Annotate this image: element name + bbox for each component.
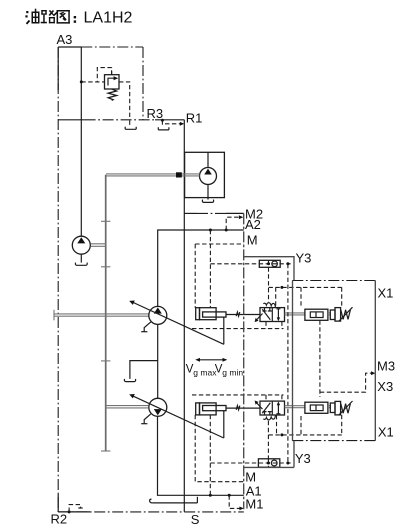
left boundary — [57, 47, 59, 512]
swash plate arm 2 — [132, 396, 224, 438]
pipe A3 — [80, 47, 82, 236]
dashed frame top of control group 2 — [192, 394, 284, 396]
R2 port symbol — [68, 510, 71, 513]
pump housing box — [185, 152, 225, 197]
fullwidth colon — [74, 16, 76, 23]
M dashed line — [195, 243, 244, 245]
svg-text:M: M — [247, 233, 258, 248]
svg-text:R3: R3 — [147, 106, 164, 121]
svg-text:M1: M1 — [245, 497, 263, 512]
spring 2 — [341, 404, 351, 414]
adjust arrow — [339, 401, 353, 415]
strainer hook — [150, 499, 153, 503]
line above circle — [207, 152, 209, 168]
R3 tank bracket — [158, 127, 169, 130]
line below to tank — [207, 185, 209, 200]
pilot to valve spring — [268, 267, 270, 302]
char 路 — [41, 10, 58, 23]
spring curl below valve — [263, 416, 275, 420]
svg-text:X1: X1 — [378, 425, 394, 440]
drain below — [80, 255, 82, 263]
svg-text:Y3: Y3 — [295, 451, 311, 466]
svg-text:LA1H2: LA1H2 — [84, 10, 133, 27]
Y3 box bottom — [244, 441, 294, 468]
proportional arrow — [256, 403, 262, 410]
right cell path — [277, 405, 279, 414]
drain tank bracket (dashed) — [129, 121, 131, 126]
feedback rod to swash arm — [223, 411, 225, 438]
top boundary — [58, 46, 81, 48]
R3/R1 horizontal line y=119.8 — [85, 119, 155, 121]
svg-text:A3: A3 — [57, 32, 73, 47]
pilot dashed from pipe — [81, 81, 104, 83]
A1 pipe down and over — [158, 417, 244, 496]
pump circle — [200, 168, 217, 185]
link to valve — [226, 314, 260, 316]
title 油路图：LA1H2 — [25, 9, 132, 27]
svg-text:X1: X1 — [378, 286, 394, 301]
flow triangle down — [154, 409, 162, 415]
svg-text:A2: A2 — [245, 217, 261, 232]
A1 pilot — [209, 415, 211, 495]
tank bracket — [202, 200, 213, 203]
junction dot A1/servo pilot — [209, 494, 212, 497]
dashed frame bottom of control group 1 — [192, 328, 284, 330]
rod to measuring piston — [285, 313, 306, 315]
right cell path — [277, 309, 279, 318]
pilot to valve2 spring — [267, 421, 269, 459]
flow triangle — [204, 169, 212, 175]
M2 line — [184, 212, 197, 214]
svg-text:M3: M3 — [377, 359, 395, 374]
right edge of main module — [243, 213, 245, 509]
shaft double line to left — [106, 174, 200, 176]
spring 1 — [341, 310, 351, 320]
coupling tick — [101, 220, 110, 222]
left cell diagonal — [262, 403, 270, 414]
S suction line — [153, 502, 198, 504]
blocked ports in left cell — [263, 308, 267, 311]
bottom boundary — [58, 511, 244, 513]
pilot dashed loop — [97, 68, 111, 82]
shaft to rail — [91, 244, 106, 247]
pipe between pumps — [157, 325, 159, 398]
servo1 pilot right (A2) — [209, 230, 211, 308]
Y3 box top — [244, 257, 294, 281]
arrow inside relief valve — [108, 78, 115, 85]
svg-text:X3: X3 — [377, 379, 393, 394]
svg-text:g min: g min — [222, 368, 243, 378]
blocked ports in left cell — [263, 412, 267, 415]
servo1 pilot left (M) — [194, 244, 196, 308]
relief valve body — [105, 75, 120, 89]
spring joint mark — [236, 406, 240, 410]
X1 enclosure — [292, 280, 375, 282]
svg-text:R2: R2 — [51, 512, 68, 526]
X3 pilot from piston 1 — [319, 320, 321, 397]
junction dot A2/M2 pilot — [225, 229, 228, 232]
shaft end cap — [101, 450, 110, 452]
char 油 — [25, 9, 39, 25]
shaft end cap — [53, 310, 55, 321]
junction dot A1/M1 pilot — [228, 494, 231, 497]
svg-text:M: M — [245, 470, 256, 485]
junction dot A2/servo pilot — [209, 229, 212, 232]
flow triangle — [77, 237, 85, 243]
spring cage — [330, 403, 335, 413]
left cell diagonal — [262, 309, 270, 320]
link — [328, 313, 330, 315]
feedback rod to swash arm — [223, 317, 225, 344]
swash plate arm 1 — [132, 302, 224, 344]
shaft coupling block — [176, 172, 182, 177]
spring below relief valve — [108, 89, 116, 100]
svg-text:Y3: Y3 — [296, 251, 312, 266]
svg-text:g max: g max — [193, 368, 217, 378]
svg-text:R1: R1 — [186, 111, 203, 126]
adjust arrow — [339, 307, 353, 321]
M1 pilot — [229, 495, 240, 508]
spring joint mark — [236, 312, 240, 316]
link to valve — [226, 407, 260, 409]
pump1 case drain — [144, 322, 151, 332]
proportional arrow — [256, 314, 262, 321]
M2 pilot dashed w/arrow — [226, 217, 239, 230]
flow triangle up — [154, 307, 162, 313]
M pilot — [195, 415, 244, 482]
relief drain dashed — [119, 82, 130, 120]
link — [328, 406, 330, 408]
coupling tick — [101, 266, 110, 268]
junction dot — [80, 80, 83, 83]
rod to measuring piston — [285, 406, 306, 408]
tank bracket — [75, 263, 87, 266]
spring cage — [330, 310, 335, 320]
shaft to pump 2 — [106, 406, 149, 408]
svg-text:S: S — [191, 512, 200, 526]
char 图 — [57, 10, 70, 24]
dashed arrow to R1 line — [165, 123, 181, 125]
long pilot rail — [287, 264, 289, 463]
spring curl above valve — [263, 303, 275, 307]
A2 pipe up and over — [158, 230, 244, 306]
pump2 case drain — [144, 414, 151, 424]
